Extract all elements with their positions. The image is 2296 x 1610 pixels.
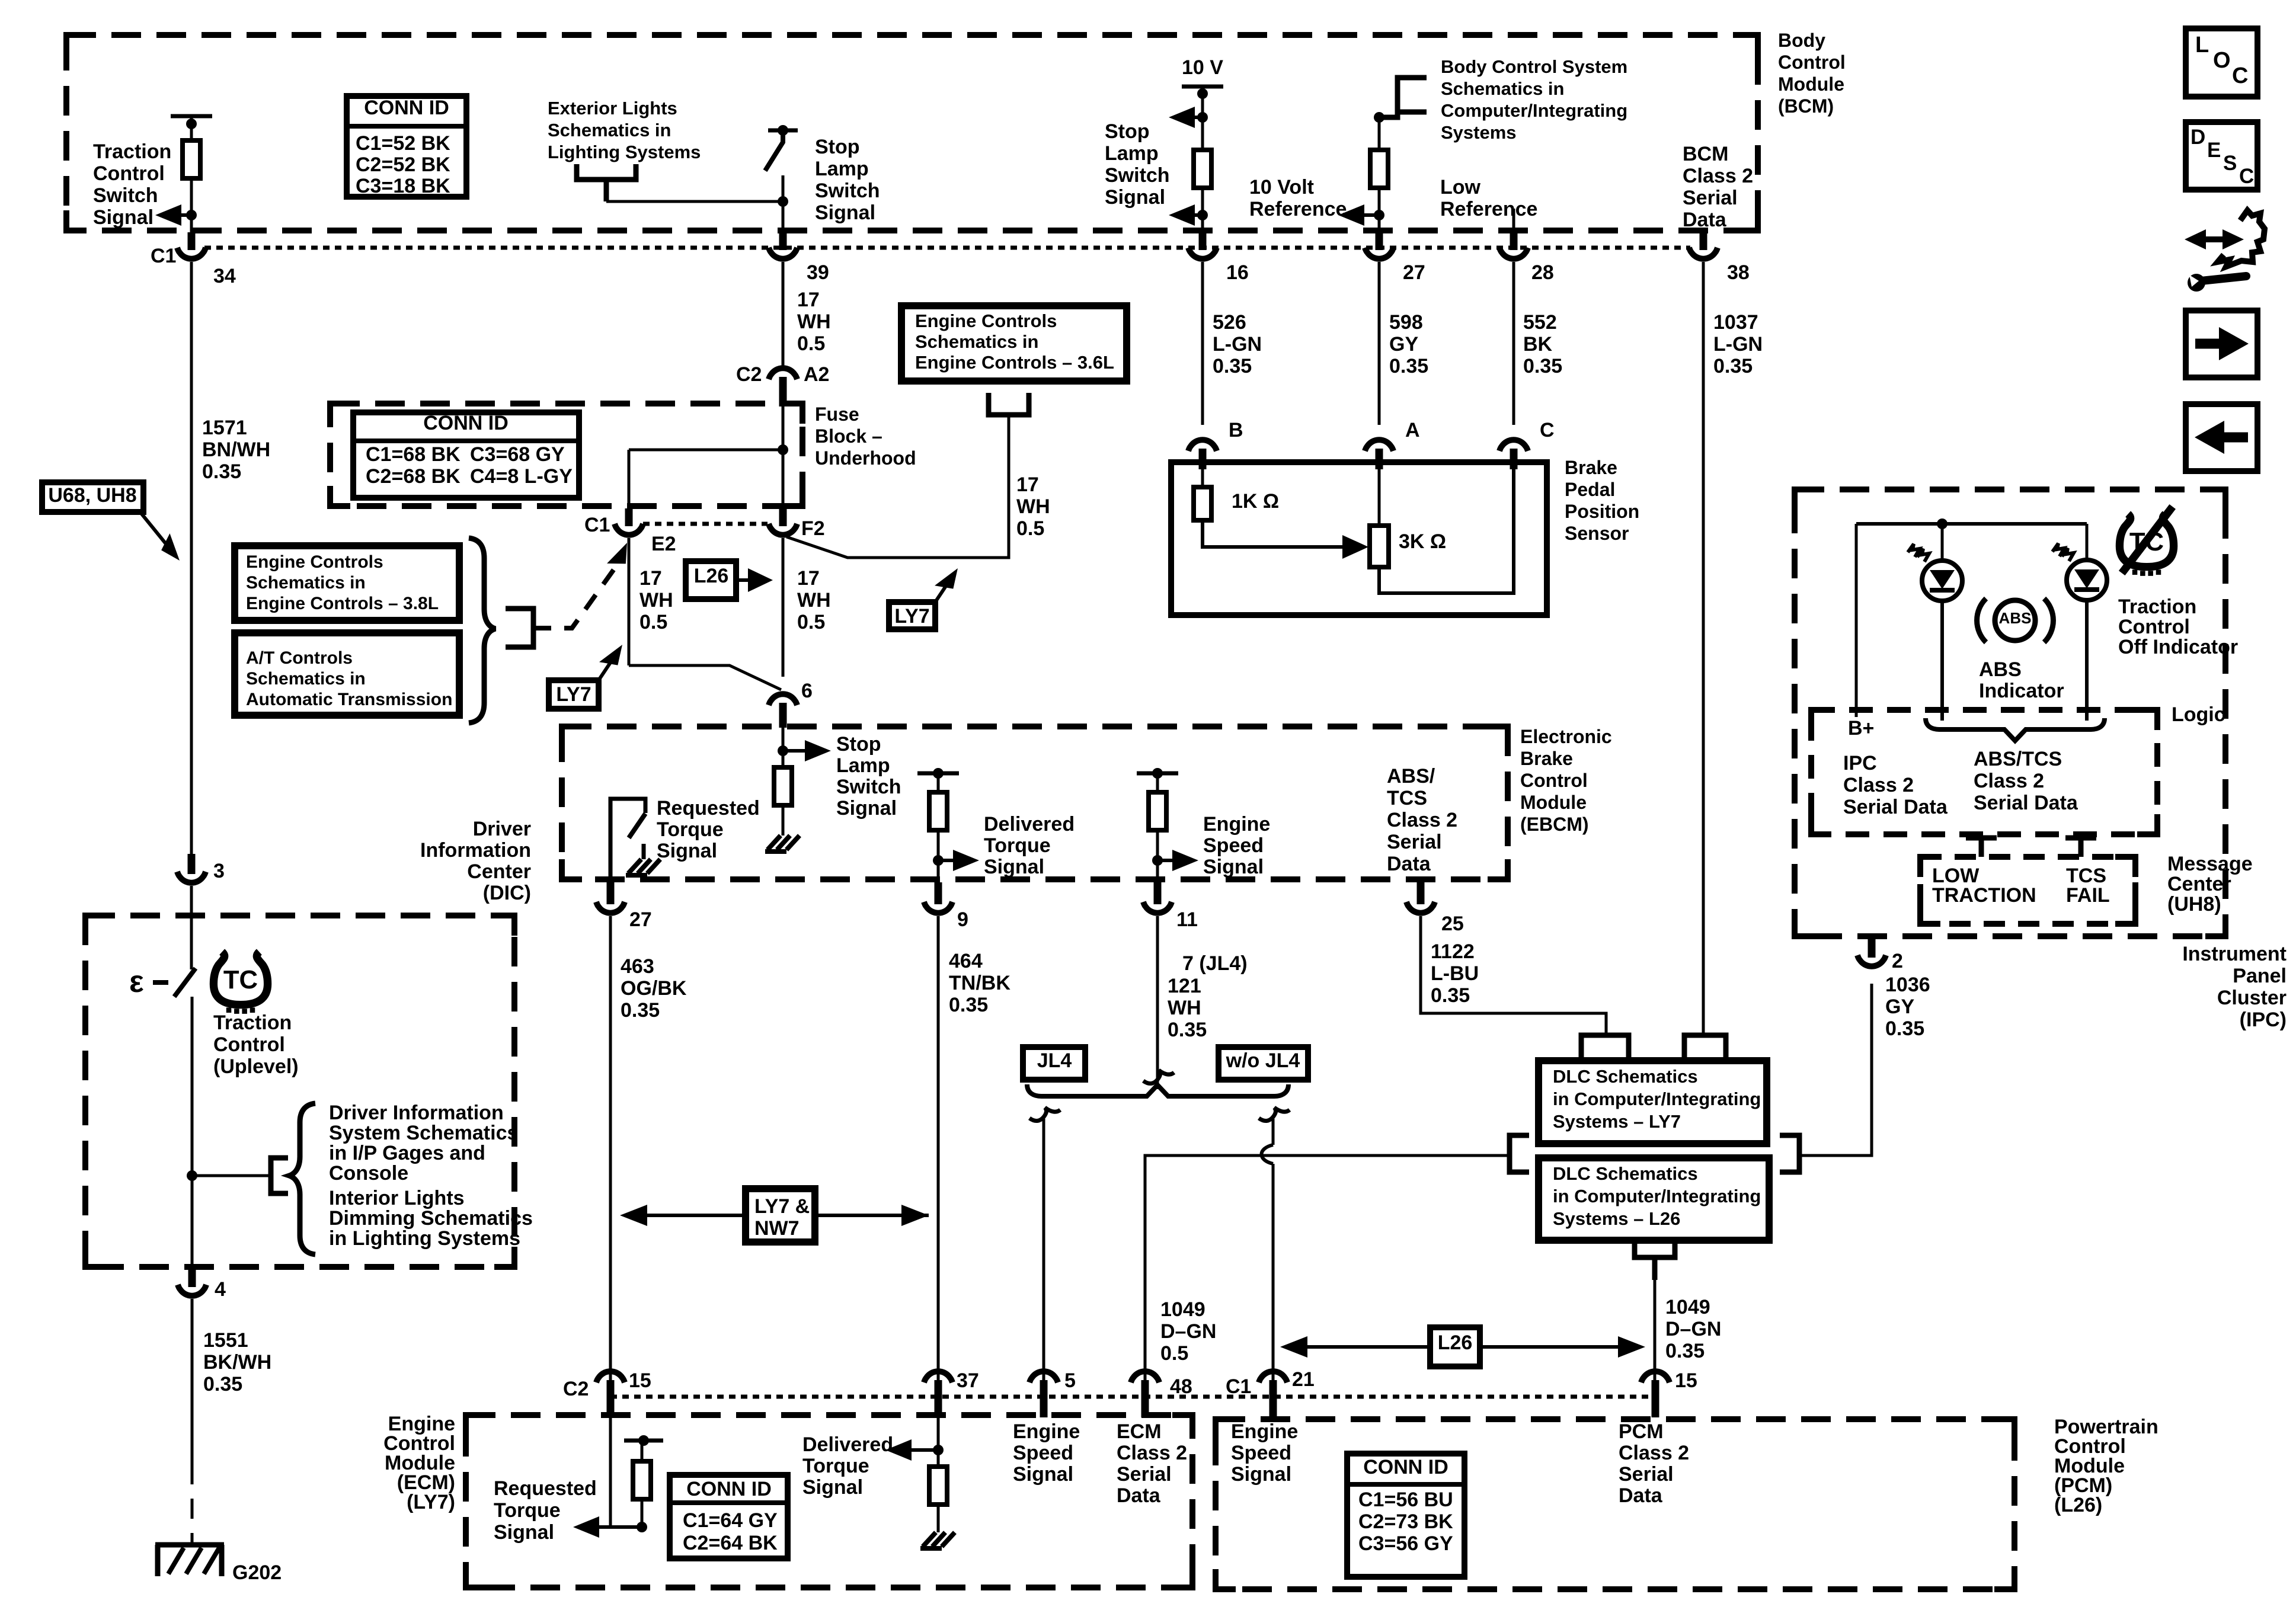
svg-text:0.5: 0.5 [639,611,667,633]
connector pin C [1510,449,1518,469]
svg-text:L-GN: L-GN [1713,333,1763,356]
connector pin 11 (EBCM) [1154,882,1162,904]
stop lamp switch blade [765,135,783,171]
svg-text:Schematics in: Schematics in [548,120,671,140]
svg-text:BK: BK [1523,333,1553,356]
DESC icon box [2186,122,2257,190]
vehicle view icon double arrow [2193,236,2236,242]
BCM connector row dotted line [204,246,1690,250]
svg-text:C: C [1540,419,1555,441]
connector pin 27 (EBCM) [607,882,615,904]
svg-text:Engine: Engine [1231,1420,1298,1443]
wire 28 stub in BCM [1512,209,1515,232]
svg-text:L26: L26 [1438,1331,1473,1354]
svg-text:1571: 1571 [202,417,247,439]
svg-text:Switch: Switch [93,184,158,207]
ground G202 [155,1542,224,1548]
svg-text:IPC: IPC [1843,752,1877,774]
junction dot delivered torque [933,855,944,866]
ground EBCM stop lamp [768,836,800,850]
squiggle on w/o JL4 branch [1259,1108,1290,1121]
wire delivered to ground ECM [937,1505,940,1532]
connector pin 38 [1700,232,1707,250]
bracket below Exterior Lights text [577,164,636,201]
U68, UH8 option box [42,482,143,512]
resistor EBCM engine speed [1149,792,1166,830]
wire B into 1K resistor [1201,469,1204,487]
svg-text:Serial Data: Serial Data [1974,792,2078,814]
svg-text:598: 598 [1389,311,1423,334]
svg-text:Signal: Signal [1203,856,1264,878]
svg-text:Traction: Traction [213,1012,292,1034]
svg-text:C1=64 GY: C1=64 GY [683,1509,778,1532]
svg-text:Requested: Requested [494,1477,597,1500]
svg-text:CONN ID: CONN ID [423,412,509,434]
svg-text:C4=8 L-GY: C4=8 L-GY [470,465,573,488]
TC off icon [2119,507,2173,576]
E2-F2 dotted connector line [643,522,768,526]
svg-text:DLC Schematics: DLC Schematics [1553,1066,1698,1087]
TC switch blade [174,968,196,997]
svg-text:Brake: Brake [1565,457,1617,478]
svg-text:Data: Data [1117,1484,1161,1507]
svg-text:ABS/TCS: ABS/TCS [1974,748,2062,770]
T-bar requested torque ECM [624,1439,663,1443]
wire 1037 L-GN conn38 down to DLC bracket [1702,262,1705,1035]
wire delivered torque lower [937,830,940,882]
svg-text:C3=56 GY: C3=56 GY [1358,1532,1453,1555]
svg-text:39: 39 [807,261,829,284]
vehicle view icon outline [2218,210,2265,267]
svg-text:TC: TC [223,965,258,994]
svg-text:1551: 1551 [203,1329,248,1352]
svg-text:in Computer/Integrating: in Computer/Integrating [1553,1089,1761,1109]
LY7 option box (right) [889,602,935,629]
svg-text:Lighting Systems: Lighting Systems [548,142,701,162]
svg-text:Serial: Serial [1683,187,1738,209]
svg-text:O: O [2213,48,2231,73]
DLC Schematics LY7 box [1539,1061,1767,1144]
svg-text:463: 463 [621,955,654,978]
bracket left of DLC boxes [1510,1135,1529,1172]
svg-text:11: 11 [1176,908,1198,931]
wire LED2 lower [2085,599,2089,721]
svg-text:464: 464 [949,950,983,972]
svg-text:Class 2: Class 2 [1387,809,1457,831]
wire F2 diagonal branch to 3.6L reference [786,415,1009,558]
wire conn2 to DLC right bracket [1799,984,1872,1156]
wire - traction control switch signal lower [190,178,193,232]
LED traction control off indicator [2067,560,2107,600]
connector pin 9 (EBCM) [935,882,942,904]
svg-text:Engine Controls: Engine Controls [915,311,1057,331]
wire conn6 into EBCM [782,722,785,767]
svg-text:TN/BK: TN/BK [949,972,1011,994]
svg-text:38: 38 [1727,261,1750,284]
wire 1122 L-BU conn25 to DLC [1421,916,1606,1035]
svg-text:CONN ID: CONN ID [686,1478,772,1500]
svg-text:Signal: Signal [1013,1463,1073,1486]
svg-text:0.35: 0.35 [1885,1017,1924,1040]
wire from Exterior Lights bracket to stop lamp switch [606,200,783,203]
svg-text:(LY7): (LY7) [407,1491,455,1513]
resistor 3K potentiometer [1370,526,1389,567]
svg-text:Center: Center [2167,873,2231,895]
split brace under 121 wire [1027,1084,1288,1096]
svg-text:Stop: Stop [1105,120,1150,143]
junction dot engine speed [1152,855,1163,866]
svg-text:WH: WH [1016,495,1050,518]
svg-text:Panel: Panel [2233,965,2287,987]
Brake Pedal Position Sensor box [1171,462,1547,615]
svg-text:Systems – L26: Systems – L26 [1553,1208,1680,1229]
svg-text:System Schematics: System Schematics [329,1122,518,1144]
svg-text:1122: 1122 [1431,940,1475,963]
svg-text:0.5: 0.5 [1016,517,1044,540]
B+ rail [1856,522,2087,526]
svg-text:Control: Control [213,1033,285,1056]
arrow - traction control switch signal (left) [167,213,191,217]
connector pin 6 [779,703,787,728]
svg-text:C: C [2239,165,2254,188]
svg-text:ABS: ABS [1979,658,2022,681]
svg-text:9: 9 [957,908,968,931]
svg-text:0.35: 0.35 [949,994,988,1016]
Instrument Panel Cluster dashed box [1795,489,2225,936]
wire A into 3K resistor [1378,469,1381,526]
ABS indicator symbol circle [1995,600,2035,641]
connector pin 28 [1510,232,1518,250]
svg-text:Delivered: Delivered [984,813,1075,836]
svg-text:0.35: 0.35 [1213,355,1252,377]
arrow from L26 box [736,578,759,582]
svg-text:Schematics in: Schematics in [246,669,366,689]
svg-text:Switch: Switch [1105,164,1170,187]
svg-text:Fuse: Fuse [815,404,859,425]
svg-text:0.35: 0.35 [202,460,241,483]
CONN ID table (ECM) [670,1475,788,1558]
hop over class2 wire [1262,1145,1274,1164]
svg-text:Logic: Logic [2172,703,2225,726]
svg-text:Speed: Speed [1231,1442,1291,1464]
svg-text:Requested: Requested [657,797,760,820]
svg-text:Dimming Schematics: Dimming Schematics [329,1207,533,1230]
arrow - 10 volt reference [1350,213,1379,217]
wire 1571 BN/WH from conn 34 to conn 3 [190,262,193,854]
wire delivered torque upper [937,773,940,792]
svg-text:4: 4 [215,1278,226,1301]
svg-text:Module: Module [1778,73,1844,95]
svg-text:BK/WH: BK/WH [203,1351,271,1374]
wire 17 WH from E2 down [628,538,631,665]
bracket above DLC-LY7 left (1122) [1581,1035,1629,1061]
svg-text:Signal: Signal [836,797,897,820]
wire to ground EBCM stop lamp [782,805,785,836]
svg-text:Lamp: Lamp [815,158,869,180]
junction dot top of wire 27 [1374,112,1384,123]
svg-text:A2: A2 [804,363,829,386]
svg-text:0.5: 0.5 [1160,1342,1188,1365]
svg-text:37: 37 [957,1369,979,1392]
svg-text:C2=64 BK: C2=64 BK [683,1532,778,1554]
svg-text:Class 2: Class 2 [1974,770,2044,792]
svg-text:Pedal: Pedal [1565,479,1615,500]
wire 463 OG/BK conn27 to conn15 [609,916,612,1384]
svg-text:Center: Center [467,860,531,883]
wire 121 WH conn11 to split brace [1156,916,1159,1089]
wire E2 corner to conn 6 [629,665,781,690]
DLC Schematics L26 box [1539,1158,1769,1240]
svg-text:WH: WH [797,589,831,612]
svg-text:Brake: Brake [1520,748,1573,769]
svg-text:OG/BK: OG/BK [621,977,687,1000]
svg-text:C: C [2232,63,2248,88]
svg-text:10 Volt: 10 Volt [1249,176,1314,199]
connector pin 2 (IPC) [1868,936,1876,958]
svg-text:L: L [2195,33,2209,57]
requested torque switch blade [629,814,645,838]
svg-text:0.35: 0.35 [1665,1340,1705,1362]
svg-text:C2=68 BK: C2=68 BK [366,465,461,488]
junction dot in fuse block [778,444,788,455]
connector C1 pin 21 (PCM) [1269,1380,1277,1417]
connector pin 3 inline [188,854,196,874]
svg-text:Sensor: Sensor [1565,523,1629,544]
svg-text:C1=56 BU: C1=56 BU [1358,1489,1453,1511]
squiggle on JL4 branch [1029,1108,1060,1121]
JL4 option box [1023,1047,1085,1080]
svg-text:NW7: NW7 [754,1217,800,1240]
bracket under Engine Controls 3.6L box [989,393,1029,415]
resistor in BCM on traction control signal [183,140,200,178]
svg-text:Control: Control [1778,52,1846,73]
Message Center dashed box [1920,857,2135,924]
svg-text:Switch: Switch [836,776,901,798]
wire 17 WH from conn 39 to fuse block [782,262,785,367]
svg-text:F2: F2 [801,517,825,540]
wire inside fuse block vertical A2-F2 [782,406,785,508]
svg-text:(BCM): (BCM) [1778,95,1834,117]
right arrow icon [2195,339,2221,349]
svg-text:Stop: Stop [836,733,881,756]
svg-text:Data: Data [1619,1484,1663,1507]
connector pin 27 [1376,232,1383,250]
svg-text:DLC Schematics: DLC Schematics [1553,1163,1698,1184]
svg-text:ECM: ECM [1117,1420,1162,1443]
svg-text:1036: 1036 [1885,974,1930,996]
svg-text:G202: G202 [232,1561,282,1584]
Powertrain Control Module dashed box [1216,1419,2014,1589]
svg-text:Engine Controls – 3.6L: Engine Controls – 3.6L [915,352,1114,373]
svg-text:Class 2: Class 2 [1843,774,1914,796]
arrow from LY7 left box [599,655,615,680]
wire 1049 D-GN 0.5 conn48 to DLC [1145,1156,1510,1384]
svg-text:U68, UH8: U68, UH8 [48,484,136,507]
svg-text:Underhood: Underhood [815,447,916,469]
wire 27 lower segment [1378,188,1381,232]
svg-text:121: 121 [1168,975,1201,997]
arrow upper - stop lamp switch signal [1181,116,1203,119]
svg-text:Delivered: Delivered [802,1433,893,1456]
junction dot DIC [187,1170,197,1181]
svg-text:Torque: Torque [984,834,1051,857]
requested torque arrow line [585,1525,644,1529]
svg-text:552: 552 [1523,311,1557,334]
wire 526 L-GN conn16 to conn B [1201,262,1204,425]
svg-text:0.35: 0.35 [621,999,660,1022]
connector pin 25 (EBCM) [1417,882,1425,904]
svg-text:1037: 1037 [1713,311,1758,334]
svg-text:Driver: Driver [473,818,531,840]
svg-text:ε: ε [129,965,144,999]
wire engine speed upper [1156,773,1159,792]
wire DLC-L26 to conn 15 PCM [1654,1280,1657,1384]
wire 1K to 3K wiper [1203,520,1351,547]
svg-text:Exterior Lights: Exterior Lights [548,98,677,119]
squiggle on 121 wire [1143,1070,1174,1084]
svg-text:LY7: LY7 [556,683,591,706]
ground delivered ECM [923,1532,955,1547]
brace ABS/TCS class2 [1926,718,2105,741]
svg-text:17: 17 [797,567,820,590]
arrow delivered torque ECM [897,1448,938,1452]
vehicle view icon wrench [2201,276,2246,281]
svg-text:Switch: Switch [815,180,880,202]
svg-text:in Lighting Systems: in Lighting Systems [329,1227,520,1250]
CONN ID table (fuse block) [353,412,579,498]
svg-text:Block –: Block – [815,425,882,447]
curly brace DIC [289,1103,315,1254]
svg-text:C3=18 BK: C3=18 BK [356,175,450,197]
svg-text:Body: Body [1778,30,1825,51]
TC tire icon (uplevel) [213,952,267,1014]
svg-text:0.5: 0.5 [797,332,825,355]
Electronic Brake Control Module dashed box [562,726,1508,879]
svg-text:in Computer/Integrating: in Computer/Integrating [1553,1186,1761,1206]
svg-text:Computer/Integrating: Computer/Integrating [1441,100,1627,121]
svg-text:10 V: 10 V [1182,56,1223,79]
wire 16 upper segment [1201,87,1204,150]
arrowhead pointing at C1/E2 [607,539,634,571]
svg-text:WH: WH [639,589,673,612]
svg-text:C1=52 BK: C1=52 BK [356,132,450,155]
connector pin 37 (ECM) [935,1380,942,1417]
svg-text:FAIL: FAIL [2066,884,2110,907]
svg-text:15: 15 [629,1369,651,1392]
connector C2 pin 15 (ECM) [607,1380,615,1417]
svg-text:JL4: JL4 [1037,1049,1072,1072]
svg-text:0.35: 0.35 [203,1373,242,1395]
wire B+ feed left [1855,524,1858,717]
svg-text:Serial Data: Serial Data [1843,796,1948,818]
svg-text:L26: L26 [694,565,729,587]
svg-text:15: 15 [1675,1369,1697,1392]
requested torque ground stem [642,844,646,859]
svg-text:Reference: Reference [1249,198,1347,220]
wire LED1 upper [1941,524,1944,562]
wire below TC switch [191,997,194,1272]
svg-text:Off Indicator: Off Indicator [2118,636,2238,658]
wire delivered torque in ECM [937,1417,940,1467]
junction dot stop lamp EBCM [778,745,788,756]
svg-text:Reference: Reference [1440,198,1537,220]
svg-text:(UH8): (UH8) [2167,893,2221,916]
wire 27 upper segment [1378,117,1381,150]
svg-text:Engine Controls – 3.8L: Engine Controls – 3.8L [246,594,439,613]
junction dot requested torque ECM [637,1522,647,1532]
resistor branch requested torque [641,1499,644,1527]
svg-text:Signal: Signal [984,856,1044,878]
arrow engine speed signal [1157,859,1187,862]
svg-text:Speed: Speed [1013,1442,1073,1464]
wire 1551 dashed to ground [191,1464,194,1543]
connector pin B [1199,449,1207,469]
svg-text:Control: Control [2118,616,2190,638]
wire 17 WH from F2 down to conn 6 [782,538,785,677]
svg-text:CONN ID: CONN ID [1363,1456,1448,1478]
svg-text:BN/WH: BN/WH [202,438,270,461]
svg-text:E2: E2 [651,533,676,555]
wire LED1 lower [1940,600,1944,721]
svg-text:Engine: Engine [1013,1420,1080,1443]
svg-text:(Uplevel): (Uplevel) [213,1055,299,1078]
svg-text:D–GN: D–GN [1160,1320,1216,1343]
svg-text:C2: C2 [736,363,762,386]
svg-text:Instrument: Instrument [2182,943,2287,965]
arrow from LY7 right box [935,579,951,602]
svg-text:Signal: Signal [93,206,154,229]
svg-text:S: S [2223,152,2237,175]
svg-text:0.5: 0.5 [797,611,825,633]
CONN ID table (BCM connectors) [347,96,466,197]
svg-text:PCM: PCM [1619,1420,1664,1443]
connector C1 pin 34 [188,232,196,250]
Engine Controls 3.6L reference box [901,306,1127,381]
svg-text:TRACTION: TRACTION [1932,884,2036,907]
svg-text:Data: Data [1387,853,1431,875]
svg-text:Traction: Traction [93,140,171,163]
svg-text:GY: GY [1885,996,1914,1018]
svg-text:Torque: Torque [802,1455,869,1477]
svg-text:Signal: Signal [494,1521,554,1544]
svg-text:(EBCM): (EBCM) [1520,814,1589,835]
svg-text:25: 25 [1441,913,1464,935]
resistor EBCM stop lamp [774,767,792,805]
connector pin 16 [1199,232,1207,250]
svg-text:ABS: ABS [1999,609,2032,627]
Logic to message center stub 2 [2065,836,2096,841]
wire requested torque in ECM [609,1417,612,1527]
connector pin A [1376,449,1383,469]
left arrow icon [2222,433,2248,443]
svg-text:ABS/: ABS/ [1387,765,1435,788]
svg-text:28: 28 [1531,261,1554,284]
svg-text:(L26): (L26) [2054,1494,2102,1516]
w/o JL4 option box [1219,1047,1308,1080]
wire to DIC brace [192,1174,271,1177]
svg-text:Indicator: Indicator [1979,680,2064,702]
delivered torque T-bar [917,772,959,776]
svg-text:0.35: 0.35 [1431,984,1470,1007]
stop lamp switch feed T-bar [768,129,798,133]
junction dot delivered ECM [933,1445,944,1455]
svg-text:A: A [1405,419,1420,441]
10 V rail T-bar [1182,85,1223,89]
svg-text:Cluster: Cluster [2217,987,2287,1009]
wire 464 TN/BK conn9 to conn37 [937,916,940,1384]
L26 span option box [1430,1327,1480,1366]
svg-text:1049: 1049 [1665,1296,1710,1318]
